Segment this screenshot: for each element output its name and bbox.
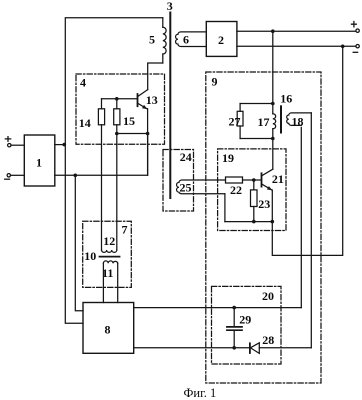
svg-text:9: 9 — [212, 75, 218, 89]
node junction + bus — [271, 29, 275, 33]
svg-text:19: 19 — [222, 151, 234, 165]
svg-text:23: 23 — [258, 197, 270, 211]
box 9 — [206, 72, 321, 383]
svg-text:16: 16 — [280, 92, 292, 106]
wire left bus 1 (winding5 top to block8) — [65, 18, 163, 323]
svg-text:10: 10 — [84, 249, 96, 263]
wire collector13 to winding5 — [148, 63, 163, 90]
svg-text:6: 6 — [183, 32, 189, 46]
svg-text:29: 29 — [239, 313, 251, 327]
box 4 — [76, 74, 165, 144]
core T16 — [280, 92, 292, 133]
wire emitter21 down — [271, 190, 273, 222]
node -in terminal — [5, 174, 11, 180]
wire R27 loop top — [240, 103, 273, 105]
node junction A — [63, 143, 67, 147]
wire block1 top output — [55, 144, 65, 146]
wire winding25 bottom down — [224, 194, 226, 222]
wire R22 to base21 — [243, 179, 262, 181]
wire winding18 bottom down — [300, 127, 302, 307]
wire rail step to - bus — [272, 46, 342, 255]
svg-text:17: 17 — [258, 115, 270, 129]
wire emitter13 horizontal — [117, 133, 148, 135]
wire winding18 top to diode — [310, 113, 312, 348]
winding L6 — [176, 32, 207, 47]
wire - bus — [237, 45, 356, 47]
wire R14 bottom lead to winding12 — [101, 125, 103, 250]
winding L25 — [177, 180, 226, 194]
box 24 — [163, 150, 194, 212]
wire R14 top lead — [101, 99, 103, 109]
resistor R22 — [226, 177, 243, 197]
node junction winding17 bottom — [271, 137, 275, 141]
winding L11 — [102, 261, 118, 280]
winding L18 — [287, 113, 312, 128]
winding L5 — [149, 18, 166, 63]
capacitor C29 — [227, 308, 251, 348]
resistor R15 — [114, 109, 135, 128]
wire R15 top lead — [116, 99, 118, 109]
node junction R23 top — [252, 178, 256, 182]
box 7 — [83, 221, 132, 287]
wire diode28 right — [259, 347, 311, 349]
node junction cap29 top — [232, 306, 236, 310]
wire R27 loop bottom — [240, 138, 273, 140]
resistor R14 — [79, 109, 105, 130]
svg-text:25: 25 — [180, 180, 192, 194]
svg-text:13: 13 — [146, 93, 158, 107]
core T3 — [167, 0, 173, 198]
winding L12 — [102, 234, 117, 252]
node junction - bus — [341, 45, 345, 49]
box 19 — [218, 149, 286, 231]
svg-text:12: 12 — [103, 234, 115, 248]
block U2 — [206, 22, 237, 57]
svg-text:3: 3 — [167, 0, 173, 13]
node junction emitter13 wire left — [115, 132, 119, 136]
wire +in to block1 — [11, 144, 24, 146]
diode D28 — [250, 333, 274, 354]
wire emitter13 down — [147, 109, 149, 176]
wire +vertical to collector21 — [272, 31, 274, 169]
core T10 — [100, 256, 120, 258]
node junction R15 top — [115, 97, 119, 101]
svg-text:18: 18 — [292, 114, 304, 128]
svg-text:8: 8 — [105, 323, 111, 337]
wire bottom rail 21 — [225, 221, 272, 223]
svg-text:28: 28 — [262, 333, 274, 347]
transistor Q21 — [262, 169, 284, 190]
svg-text:15: 15 — [123, 114, 135, 128]
wire block8 bottom output — [134, 347, 250, 349]
wire base bus 13 — [102, 98, 138, 100]
wire R15 bottom lead to winding12 — [116, 125, 118, 250]
node junction cap29 bottom — [232, 346, 236, 350]
node +out terminal — [352, 22, 360, 33]
block U1 — [24, 135, 55, 186]
svg-text:7: 7 — [122, 222, 128, 236]
resistor R23 — [251, 180, 271, 222]
svg-text:14: 14 — [79, 116, 91, 130]
node junction R23 bottom — [252, 220, 256, 224]
svg-text:Фиг. 1: Фиг. 1 — [184, 386, 217, 400]
svg-text:22: 22 — [230, 183, 242, 197]
svg-text:20: 20 — [262, 289, 274, 303]
block U8 — [83, 303, 134, 354]
node -out terminal — [353, 45, 359, 53]
svg-text:2: 2 — [218, 33, 224, 47]
svg-text:5: 5 — [149, 33, 155, 47]
node junction winding17 top — [271, 102, 275, 106]
wire block1 bottom output — [55, 134, 148, 176]
wire block8 top output — [134, 307, 302, 309]
svg-text:1: 1 — [36, 156, 42, 170]
svg-text:4: 4 — [80, 75, 86, 89]
node junction B — [74, 174, 78, 178]
resistor R27 — [229, 104, 244, 139]
wire -in to block1 — [11, 174, 25, 176]
node junction emitter13 wire right — [146, 132, 150, 136]
wire + bus — [237, 30, 356, 32]
svg-text:21: 21 — [272, 172, 284, 186]
node +in terminal — [5, 137, 11, 147]
svg-text:27: 27 — [229, 114, 241, 128]
wire winding11 leads to block8 — [103, 263, 117, 302]
transistor Q13 — [138, 90, 158, 110]
node junction emitter21 rail — [271, 220, 275, 224]
box 20 — [212, 286, 282, 364]
wire left bus 2 (junction B to block8) — [75, 175, 83, 310]
svg-text:24: 24 — [180, 150, 192, 164]
winding L17 — [258, 114, 276, 129]
